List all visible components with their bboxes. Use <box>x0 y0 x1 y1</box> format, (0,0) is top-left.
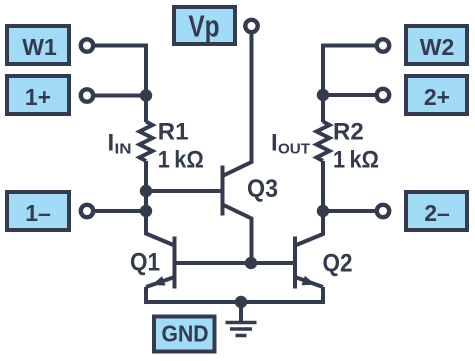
terminal box Vp <box>174 7 235 44</box>
svg-text:R2: R2 <box>333 119 364 146</box>
svg-text:1+: 1+ <box>25 84 51 110</box>
terminal box 2+ <box>406 76 467 114</box>
wire 1- terminal to node B <box>87 209 146 213</box>
transistor Q2 <box>293 237 297 289</box>
wire 1+ terminal to node <box>87 94 146 98</box>
wire Q3 emitter to node D <box>223 205 252 264</box>
svg-text:IN: IN <box>115 141 132 158</box>
terminal W1 <box>81 39 93 51</box>
wire R1 bottom to node A <box>144 161 148 191</box>
svg-text:Q2: Q2 <box>323 250 353 278</box>
terminal box GND <box>154 317 215 352</box>
wire Q1 emitter <box>146 277 175 287</box>
node D: base rail / Q3 emitter <box>245 257 257 269</box>
transistor Q1 <box>173 237 177 289</box>
svg-text:W1: W1 <box>22 34 57 60</box>
svg-text:GND: GND <box>162 321 209 347</box>
terminal 2+ <box>377 89 389 101</box>
wire Q2 emitter <box>295 277 323 287</box>
wire W1 terminal to left vertical <box>87 46 146 96</box>
resistor R2 <box>317 122 330 162</box>
ground bar 2 <box>230 327 252 331</box>
svg-text:1 kΩ: 1 kΩ <box>333 147 379 174</box>
node: W1/1+ junction <box>140 89 152 101</box>
terminal box 2- <box>406 192 467 230</box>
base rail Q1 to Q2 <box>175 261 296 265</box>
ground bar 1 <box>226 321 257 325</box>
svg-text:1–: 1– <box>25 200 51 226</box>
terminal box 1+ <box>7 76 69 114</box>
node B: 1- / Q1 collector <box>140 205 152 217</box>
svg-text:Vp: Vp <box>188 9 219 43</box>
terminal W2 <box>377 39 389 51</box>
Q1 emitter arrow <box>152 276 166 285</box>
ground stem <box>239 302 243 321</box>
resistor R1 <box>140 122 153 162</box>
svg-text:Q1: Q1 <box>130 249 160 277</box>
wire 2- terminal to node C <box>323 209 383 213</box>
terminal box W2 <box>406 26 467 64</box>
node A: R1 bottom / Q3 base <box>140 185 152 197</box>
wire node B to Q1 collector <box>146 211 175 246</box>
svg-text:OUT: OUT <box>278 141 310 158</box>
wire node to R2 top <box>321 95 325 122</box>
svg-text:I: I <box>108 130 115 157</box>
transistor Q3 <box>221 166 225 216</box>
terminal 2- <box>377 205 389 217</box>
node: ground junction <box>235 296 247 308</box>
wire node C to Q2 collector <box>295 211 323 246</box>
wire R2 bottom to node C <box>321 161 325 211</box>
terminal box W1 <box>7 26 69 64</box>
svg-text:W2: W2 <box>420 34 455 60</box>
wire 2+ terminal to node <box>323 93 383 97</box>
ground bar 3 <box>236 334 247 338</box>
wire node A to node B <box>144 191 148 211</box>
wire W2 terminal to right vertical <box>323 46 383 96</box>
Q2 emitter arrow <box>302 276 316 285</box>
terminal 1+ <box>81 89 93 101</box>
terminal 1- <box>81 205 93 217</box>
terminal Vp <box>245 20 257 32</box>
svg-text:I: I <box>271 130 278 157</box>
bottom rail <box>146 287 323 302</box>
svg-text:R1: R1 <box>158 119 189 146</box>
node C: R2 bottom / 2- <box>317 205 329 217</box>
node: W2/2+ junction <box>317 89 329 101</box>
wire node to R1 top <box>144 96 148 123</box>
svg-text:2+: 2+ <box>424 84 450 110</box>
wire node A to Q3 base <box>146 189 223 193</box>
terminal box 1- <box>7 192 69 230</box>
svg-text:Q3: Q3 <box>247 175 278 203</box>
svg-text:1 kΩ: 1 kΩ <box>158 147 204 174</box>
svg-text:2–: 2– <box>424 200 450 226</box>
wire Vp to Q3 collector <box>223 34 252 177</box>
